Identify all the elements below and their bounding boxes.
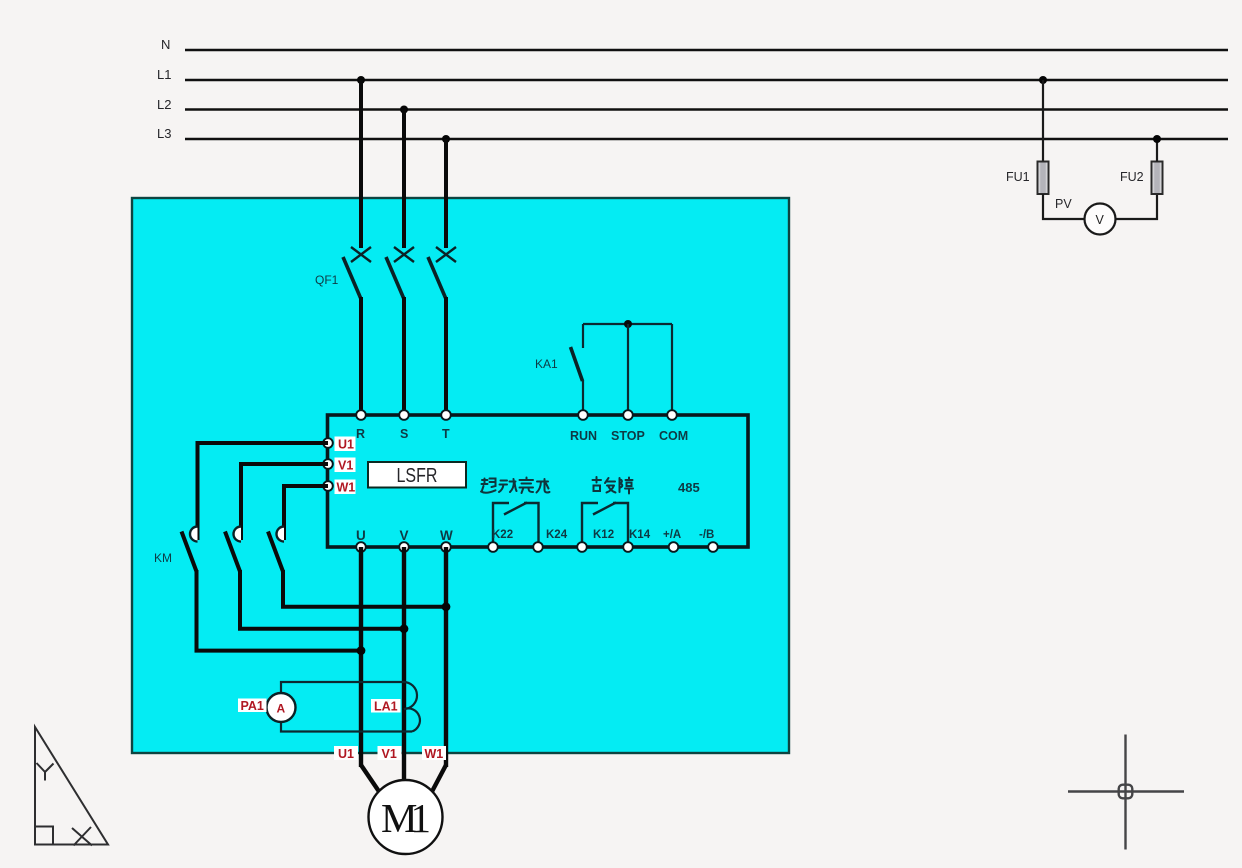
bus L3 (185, 138, 1228, 140)
wire KM2 to V (240, 570, 404, 629)
svg-text:K24: K24 (546, 529, 568, 541)
svg-text:KA1: KA1 (535, 357, 558, 371)
terminal W1 (323, 481, 333, 491)
wire KM3 to W (283, 570, 446, 607)
wire W output (444, 547, 448, 767)
contactor KM pole 2 (225, 527, 241, 572)
wire KM1 to U (197, 570, 362, 651)
wire V output (402, 547, 406, 781)
svg-text:PV: PV (1055, 197, 1072, 211)
label guzhang (593, 477, 634, 494)
node V junction (400, 624, 409, 633)
wire FU2 drop (1156, 139, 1158, 162)
svg-text:LSFR: LSFR (397, 464, 438, 486)
label qidong-wancheng (481, 478, 550, 494)
svg-text:K12: K12 (593, 529, 614, 541)
svg-text:N: N (161, 37, 170, 52)
wire QF1 pole2 to S (402, 297, 406, 415)
svg-text:W1: W1 (425, 747, 444, 761)
wire W1 bypass horizontal (284, 484, 328, 488)
svg-text:485: 485 (678, 480, 700, 495)
motor M1 (369, 780, 443, 854)
svg-text:K22: K22 (492, 529, 513, 541)
wire FU1 drop (1042, 80, 1044, 162)
transformer LA1 (403, 682, 420, 732)
wire PV to FU2 (1116, 194, 1158, 219)
svg-text:A: A (277, 702, 286, 716)
terminal COM (667, 410, 677, 420)
bus L1 (185, 79, 1228, 81)
svg-text:K14: K14 (629, 529, 651, 541)
svg-text:U: U (356, 528, 366, 543)
terminal K14 (623, 542, 633, 552)
terminal S (399, 410, 409, 420)
svg-text:L2: L2 (157, 97, 171, 112)
label U1 (335, 437, 356, 452)
switch KA1 (571, 324, 584, 415)
terminal U1 (323, 438, 333, 448)
fuse FU2 (1152, 162, 1163, 195)
svg-text:R: R (356, 427, 365, 441)
svg-text:U1: U1 (338, 438, 354, 452)
contactor KM pole 1 (182, 527, 198, 572)
node L2 tap (400, 106, 408, 114)
node FU1 tap (1039, 76, 1047, 84)
fuse FU1 (1038, 162, 1049, 195)
svg-text:COM: COM (659, 429, 688, 443)
terminal +/A (669, 542, 679, 552)
label U1 motor (334, 746, 358, 761)
soft starter U1 box outline (328, 415, 749, 547)
cyan panel (132, 198, 789, 753)
svg-text:S: S (400, 427, 408, 441)
terminal K24 (533, 542, 543, 552)
contact K12-K14 (582, 503, 628, 546)
label W1 motor (422, 746, 446, 761)
wire U output (359, 547, 363, 767)
contact K22-K24 (493, 503, 539, 546)
breaker QF1 pole 1 (343, 247, 371, 299)
wire L1 drop (359, 80, 363, 248)
nameplate LSFR (368, 462, 466, 488)
svg-text:FU1: FU1 (1006, 170, 1030, 184)
label W1 (335, 480, 356, 495)
terminal V (399, 542, 409, 552)
terminal K22 (488, 542, 498, 552)
terminal STOP (623, 410, 633, 420)
ammeter loop top wire (281, 682, 403, 694)
wire W motor lead (432, 765, 446, 792)
node W junction (442, 602, 451, 611)
svg-text:W: W (440, 528, 453, 543)
wire QF1 pole1 to R (359, 297, 363, 415)
label PA1 (238, 699, 267, 714)
wire STOP drop (627, 324, 629, 415)
node L3 tap (442, 135, 450, 143)
svg-text:RUN: RUN (570, 429, 597, 443)
terminal R (356, 410, 366, 420)
node FU2 tap (1153, 135, 1161, 143)
svg-text:+/A: +/A (663, 529, 681, 541)
label V1 (335, 458, 356, 473)
label LA1 (371, 699, 401, 714)
wire U1 bypass down (196, 441, 200, 540)
contactor KM pole 3 (268, 527, 284, 572)
wire V1 bypass horizontal (241, 462, 328, 466)
terminal T (441, 410, 451, 420)
drafting triangle (35, 727, 108, 846)
terminal -/B (708, 542, 718, 552)
wire COM drop (671, 324, 673, 415)
wire L3 drop (444, 139, 448, 248)
svg-text:L3: L3 (157, 126, 171, 141)
svg-text:U1: U1 (338, 747, 354, 761)
svg-text:V: V (1096, 213, 1105, 227)
ammeter PA1 (267, 693, 296, 722)
ammeter loop bottom wire (281, 722, 412, 732)
svg-text:T: T (442, 427, 450, 441)
svg-text:V: V (400, 528, 409, 543)
svg-text:QF1: QF1 (315, 273, 339, 287)
svg-text:-/B: -/B (699, 529, 714, 541)
svg-text:M1: M1 (381, 795, 431, 841)
voltmeter PV (1085, 204, 1116, 235)
label V1 motor (378, 746, 402, 761)
svg-text:V1: V1 (338, 459, 353, 473)
wire U1 bypass horizontal (198, 441, 329, 445)
node KA1 junction (624, 320, 632, 328)
svg-text:W1: W1 (337, 481, 356, 495)
wire QF1 pole3 to T (444, 297, 448, 415)
svg-text:V1: V1 (382, 747, 397, 761)
bus L2 (185, 108, 1228, 110)
bus N (185, 49, 1228, 51)
svg-text:L1: L1 (157, 67, 171, 82)
wire U motor lead (361, 765, 379, 792)
svg-text:PA1: PA1 (241, 699, 264, 713)
svg-text:STOP: STOP (611, 429, 645, 443)
terminal U (356, 542, 366, 552)
wire L2 drop (402, 110, 406, 249)
svg-text:FU2: FU2 (1120, 170, 1144, 184)
svg-text:KM: KM (154, 551, 172, 565)
wire W1 bypass down (282, 484, 286, 540)
terminal RUN (578, 410, 588, 420)
wire KA1 top link (583, 323, 672, 325)
terminal W (441, 542, 451, 552)
node L1 tap (357, 76, 365, 84)
wire V1 bypass down (239, 462, 243, 540)
breaker QF1 pole 2 (386, 247, 414, 299)
svg-text:LA1: LA1 (374, 700, 398, 714)
wire FU1 to PV (1043, 194, 1085, 219)
terminal K12 (577, 542, 587, 552)
breaker QF1 pole 3 (428, 247, 456, 299)
crosshair marker (1068, 735, 1184, 850)
terminal V1 (323, 459, 333, 469)
node U junction (357, 646, 366, 655)
